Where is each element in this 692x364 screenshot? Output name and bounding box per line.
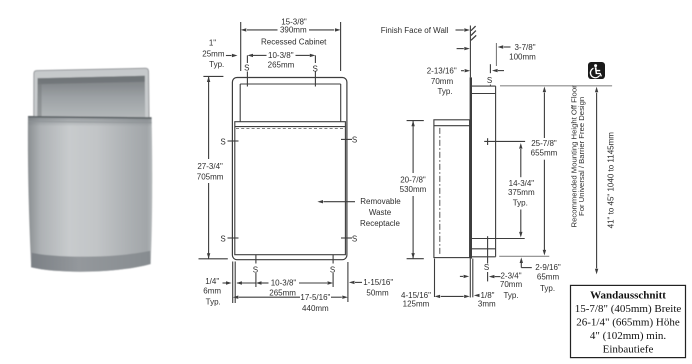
- dim 1/4 arrows: [223, 282, 227, 284]
- svg-text:Wandausschnitt: Wandausschnitt: [590, 290, 666, 302]
- product photo: recess interior: [37, 76, 146, 187]
- dim 15-3/8 390mm extension lines: [240, 22, 242, 71]
- svg-text:15-7/8" (405mm) Breite: 15-7/8" (405mm) Breite: [575, 303, 682, 315]
- dim 17-5/16 440mm right extension line: [347, 262, 349, 302]
- svg-text:S: S: [244, 63, 249, 72]
- svg-text:Einbautiefe: Einbautiefe: [603, 344, 654, 356]
- svg-text:Finish Face of Wall: Finish Face of Wall: [381, 26, 449, 35]
- svg-text:Typ.: Typ.: [206, 297, 221, 306]
- dim 25-7/8 655mm top reference line: [500, 85, 612, 87]
- svg-text:2-9/16": 2-9/16": [535, 263, 561, 272]
- side view: recessed cabinet box: [434, 120, 470, 258]
- svg-text:Typ.: Typ.: [503, 291, 518, 300]
- front view: waste bin front panel: [235, 122, 346, 255]
- svg-text:125mm: 125mm: [403, 300, 430, 309]
- side view: bin bottom line extended: [496, 238, 525, 240]
- svg-text:25mm: 25mm: [202, 50, 225, 59]
- dim 1in leader arrow: [226, 55, 232, 57]
- screw tick left edge upper: [228, 140, 239, 142]
- svg-text:27-3/4": 27-3/4": [197, 162, 223, 171]
- svg-text:Receptacle: Receptacle: [360, 219, 401, 228]
- svg-text:25-7/8": 25-7/8": [531, 139, 557, 148]
- dim 10-3/8 265mm top screw ticks: [246, 55, 248, 63]
- svg-text:265mm: 265mm: [269, 288, 296, 297]
- svg-text:65mm: 65mm: [537, 273, 560, 282]
- svg-text:S: S: [253, 266, 258, 275]
- product photo: waste bin: [28, 117, 152, 272]
- dim 1/4 extension lines: [232, 262, 234, 304]
- side view: flange bar: [470, 77, 472, 258]
- screw tick right edge lower: [341, 237, 352, 239]
- svg-text:Recessed Cabinet: Recessed Cabinet: [261, 38, 327, 47]
- svg-text:4" (102mm) min.: 4" (102mm) min.: [590, 330, 667, 342]
- side view: waste bin profile: [472, 85, 496, 87]
- svg-text:Typ.: Typ.: [513, 199, 528, 208]
- svg-text:S: S: [484, 263, 489, 272]
- flange back line below cabinet: [472, 259, 474, 298]
- svg-text:3mm: 3mm: [478, 300, 496, 309]
- svg-text:530mm: 530mm: [400, 185, 427, 194]
- svg-text:100mm: 100mm: [509, 53, 536, 62]
- svg-text:20-7/8": 20-7/8": [400, 175, 426, 184]
- svg-text:S: S: [352, 136, 357, 145]
- svg-text:1/4": 1/4": [205, 277, 219, 286]
- svg-text:1-15/16": 1-15/16": [363, 278, 393, 287]
- dim 10-3/8 265mm bottom screw ticks: [255, 255, 257, 264]
- dim 20-7/8 530mm dimension line: [412, 121, 414, 173]
- dim 4-15/16 dimension line: [441, 295, 464, 297]
- dim 1/8 3mm arrow: [474, 294, 480, 297]
- svg-text:2-13/16": 2-13/16": [427, 66, 457, 75]
- svg-text:10-3/8": 10-3/8": [271, 279, 297, 288]
- mounting height dimension line: [596, 93, 598, 269]
- dim 20-7/8 530mm extension ticks: [407, 120, 424, 122]
- screw tick right edge upper: [341, 138, 352, 140]
- dim 10-3/8 265mm top dimension line: [253, 54, 267, 56]
- dim 4-15/16 125mm extension line: [434, 259, 436, 298]
- Wandausschnitt box: [571, 285, 686, 357]
- dim 2-3/4 arrows: [460, 275, 463, 277]
- side middle screw tick: [484, 140, 525, 142]
- wall hatching: [471, 26, 476, 31]
- dim 25-7/8 655mm bottom reference line: [499, 255, 549, 257]
- wall line lower: [469, 259, 471, 298]
- leader arrow to waste bin: [323, 201, 355, 203]
- svg-text:265mm: 265mm: [268, 60, 295, 69]
- svg-text:1": 1": [209, 38, 216, 47]
- accessibility icon: [588, 62, 605, 79]
- svg-text:14-3/4": 14-3/4": [509, 179, 535, 188]
- product photo: bin bottom bevel: [31, 251, 150, 272]
- front view: bin seam dashed line: [236, 127, 345, 129]
- dim 27-3/4 705mm dimension line: [208, 76, 210, 159]
- svg-text:S: S: [220, 234, 225, 243]
- dim 17-5/16 440mm dimension line: [239, 296, 300, 298]
- dim 1-15/16 arrow: [355, 281, 362, 283]
- svg-text:17-5/16": 17-5/16": [300, 293, 330, 302]
- svg-text:S: S: [487, 76, 492, 85]
- svg-text:50mm: 50mm: [366, 289, 389, 298]
- svg-text:For Universal / Barrier Free D: For Universal / Barrier Free Design: [577, 97, 586, 216]
- dim 25-7/8 655mm dimension line: [543, 93, 545, 139]
- dim 10-3/8 265mm bottom dimension line: [262, 282, 269, 284]
- wall line: [469, 26, 471, 78]
- dim 2-13/16 arrows: [461, 70, 464, 72]
- svg-text:41" to 45" 1040 to 1145mm: 41" to 45" 1040 to 1145mm: [607, 132, 616, 229]
- svg-text:10-3/8": 10-3/8": [268, 51, 294, 60]
- svg-text:Typ.: Typ.: [209, 60, 224, 69]
- dim 3-7/8 100mm extension line: [495, 43, 497, 66]
- svg-text:705mm: 705mm: [197, 173, 224, 182]
- side view: cabinet hidden dashed line: [439, 128, 441, 255]
- svg-text:S: S: [220, 137, 225, 146]
- svg-text:Typ.: Typ.: [540, 284, 555, 293]
- svg-text:440mm: 440mm: [302, 304, 329, 313]
- svg-text:3-7/8": 3-7/8": [514, 43, 535, 52]
- svg-text:375mm: 375mm: [508, 188, 535, 197]
- dim 15-3/8 390mm dimension line: [247, 29, 278, 31]
- svg-text:6mm: 6mm: [203, 287, 221, 296]
- svg-text:S: S: [330, 266, 335, 275]
- dim 2-9/16 65mm Typ leader: [520, 261, 522, 268]
- svg-text:S: S: [313, 64, 318, 73]
- svg-text:Typ.: Typ.: [437, 87, 452, 96]
- dim 3-7/8 arrows: [457, 48, 464, 50]
- dim 14-3/4 375mm Typ dimension line: [520, 149, 522, 177]
- product photo: bin top rim shadow: [28, 117, 152, 127]
- svg-text:655mm: 655mm: [531, 148, 558, 157]
- screw tick left edge lower: [228, 237, 239, 239]
- side bottom screw extension line: [487, 236, 489, 263]
- svg-text:S: S: [352, 234, 357, 243]
- svg-text:Waste: Waste: [369, 208, 392, 217]
- dim 2-13/16 screw tick: [489, 64, 491, 73]
- svg-text:70mm: 70mm: [431, 77, 454, 86]
- front view: recess opening: [240, 83, 341, 85]
- dim 27-3/4 705mm extension lines: [203, 75, 223, 77]
- svg-text:70mm: 70mm: [500, 280, 523, 289]
- svg-text:26-1/4" (665mm) Höhe: 26-1/4" (665mm) Höhe: [576, 317, 680, 329]
- front view: cabinet flange outline: [232, 78, 347, 260]
- svg-text:Removable: Removable: [360, 197, 401, 206]
- svg-text:390mm: 390mm: [280, 26, 307, 35]
- leader arrow to wall line: [456, 29, 464, 31]
